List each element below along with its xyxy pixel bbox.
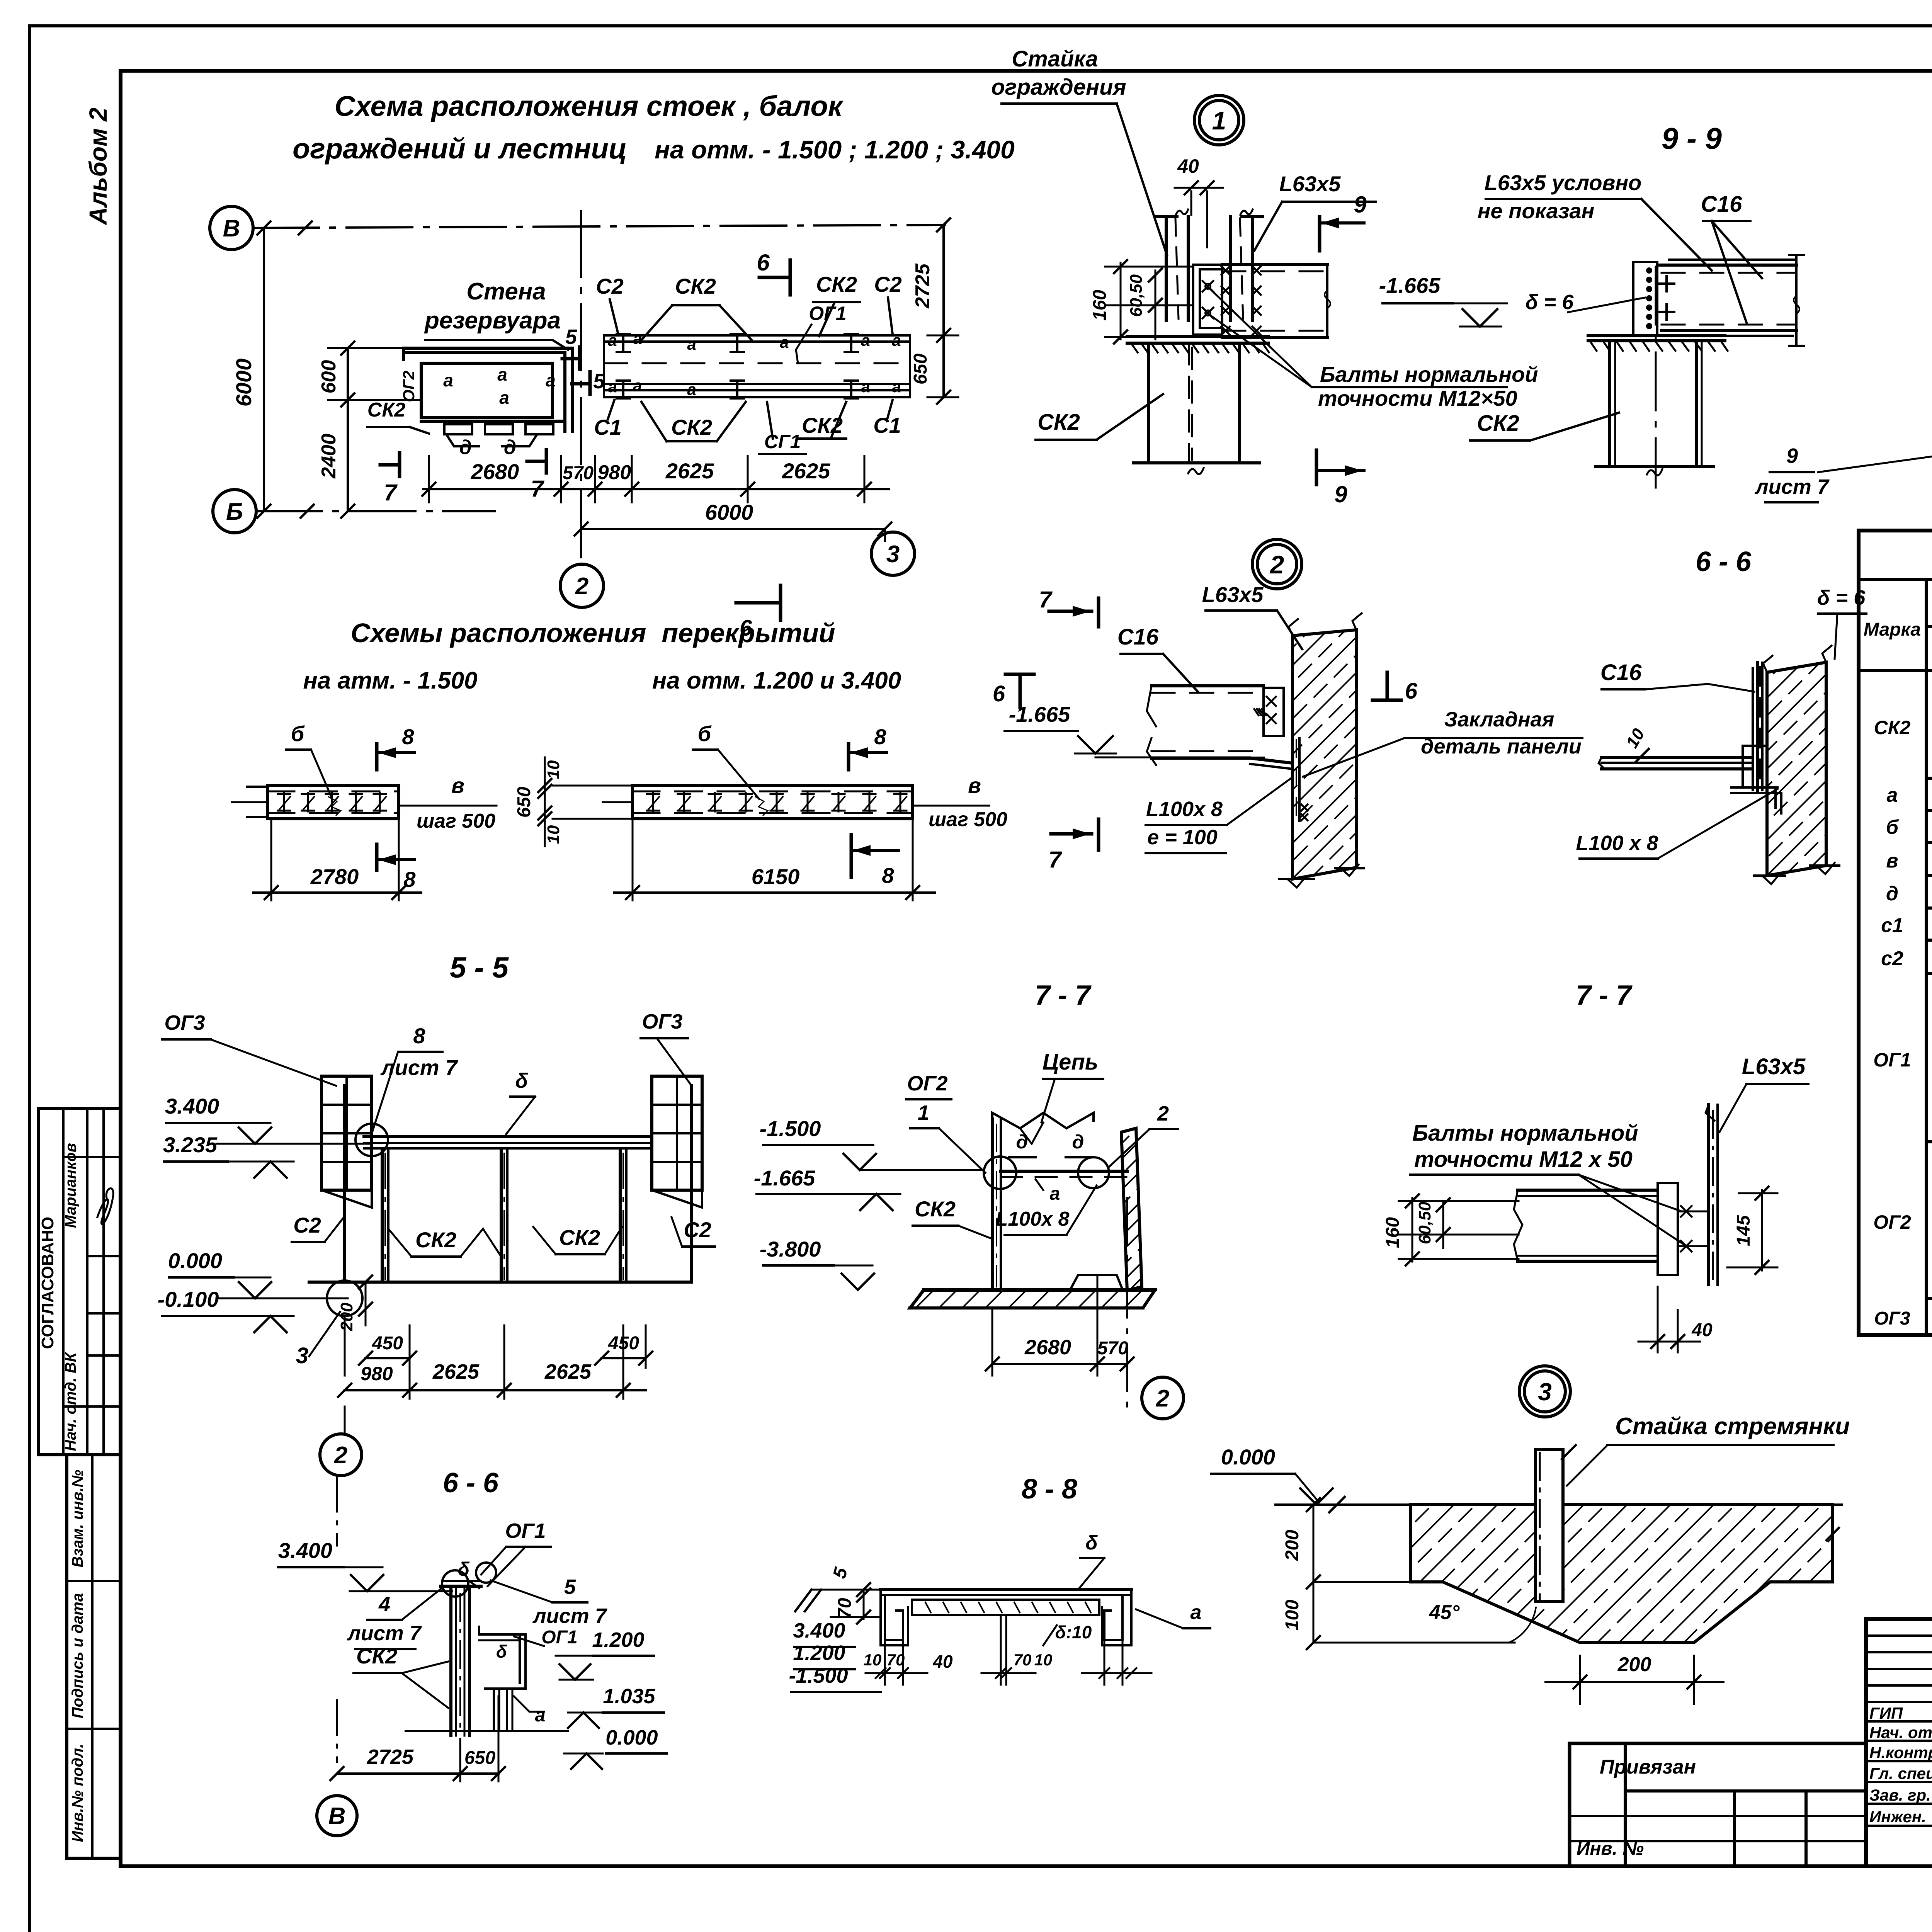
svg-text:145: 145 <box>1733 1215 1754 1246</box>
svg-text:ГИП: ГИП <box>1869 1704 1903 1722</box>
svg-text:С16: С16 <box>1701 192 1742 217</box>
svg-text:6000: 6000 <box>705 500 753 524</box>
svg-text:а: а <box>861 331 870 349</box>
svg-text:а: а <box>780 333 789 351</box>
svg-text:10: 10 <box>864 1651 882 1669</box>
svg-text:с2: с2 <box>1881 947 1903 970</box>
svg-text:СК2: СК2 <box>915 1197 956 1221</box>
svg-text:Альбом 2: Альбом 2 <box>84 107 112 225</box>
svg-text:δ: δ <box>1085 1532 1098 1554</box>
svg-text:на отм. - 1.500 ; 1.200 ; 3.: на отм. - 1.500 ; 1.200 ; 3.400 <box>655 135 1015 164</box>
svg-text:δ: δ <box>458 1558 470 1580</box>
svg-text:СК2: СК2 <box>671 415 712 439</box>
svg-text:6 - 6: 6 - 6 <box>443 1468 499 1498</box>
svg-text:100: 100 <box>1282 1600 1303 1631</box>
svg-text:а: а <box>443 370 453 390</box>
svg-text:на отм. 1.200 и 3.400: на отм. 1.200 и 3.400 <box>652 667 901 694</box>
svg-text:1: 1 <box>918 1101 929 1124</box>
svg-text:70: 70 <box>835 1598 855 1619</box>
svg-text:10: 10 <box>544 825 563 844</box>
svg-text:980: 980 <box>598 461 631 484</box>
svg-text:5 - 5: 5 - 5 <box>450 951 509 984</box>
svg-text:СК2: СК2 <box>1874 717 1911 738</box>
svg-text:-1.665: -1.665 <box>1009 702 1071 726</box>
svg-text:СК2: СК2 <box>1037 410 1080 435</box>
svg-text:резервуара: резервуара <box>424 307 561 334</box>
svg-text:СК2: СК2 <box>356 1644 397 1668</box>
svg-text:L63х5: L63х5 <box>1279 172 1341 196</box>
svg-text:980: 980 <box>361 1363 393 1384</box>
svg-text:0.000: 0.000 <box>605 1726 658 1749</box>
svg-text:δ = 6: δ = 6 <box>1526 291 1574 314</box>
svg-text:на атм. - 1.500: на атм. - 1.500 <box>303 667 477 694</box>
svg-text:Инжен.: Инжен. <box>1869 1808 1926 1826</box>
svg-text:Марка: Марка <box>1864 619 1921 640</box>
svg-text:570: 570 <box>563 463 594 483</box>
svg-text:Привязан: Привязан <box>1600 1756 1696 1778</box>
svg-text:650: 650 <box>910 354 931 384</box>
svg-text:60,50: 60,50 <box>1127 274 1146 317</box>
svg-text:д: д <box>1886 883 1898 905</box>
svg-text:Гл. спец.: Гл. спец. <box>1869 1764 1932 1782</box>
svg-text:2625: 2625 <box>432 1360 480 1383</box>
svg-text:ограждений и лестниц: ограждений и лестниц <box>293 133 627 165</box>
svg-text:-3.800: -3.800 <box>760 1237 821 1261</box>
svg-text:60,50: 60,50 <box>1415 1201 1434 1244</box>
svg-text:-0.100: -0.100 <box>158 1287 219 1311</box>
svg-text:шаг 500: шаг 500 <box>417 810 495 832</box>
svg-text:Цепь: Цепь <box>1043 1049 1098 1075</box>
svg-text:8: 8 <box>403 867 416 891</box>
svg-text:L100 х 8: L100 х 8 <box>1576 832 1658 855</box>
svg-text:а: а <box>1887 784 1898 806</box>
svg-text:δ: δ <box>496 1641 507 1662</box>
svg-text:2725: 2725 <box>367 1745 414 1769</box>
svg-text:40: 40 <box>932 1651 953 1672</box>
svg-text:ОГ3: ОГ3 <box>1874 1308 1910 1329</box>
svg-text:8: 8 <box>402 724 414 749</box>
svg-text:ОГ1: ОГ1 <box>505 1519 546 1543</box>
svg-text:б: б <box>698 721 712 746</box>
svg-text:Н.контр.: Н.контр. <box>1869 1743 1932 1762</box>
svg-text:а: а <box>499 388 509 408</box>
svg-text:2780: 2780 <box>310 864 359 889</box>
svg-text:6150: 6150 <box>752 864 800 889</box>
svg-text:а: а <box>546 370 556 390</box>
svg-text:6: 6 <box>993 681 1005 706</box>
svg-text:8 - 8: 8 - 8 <box>1022 1474 1077 1505</box>
svg-text:Инв.№ подл.: Инв.№ подл. <box>69 1744 86 1842</box>
svg-text:СК2: СК2 <box>415 1228 456 1252</box>
svg-text:Схема расположения стоек ,: Схема расположения стоек , балок <box>335 90 844 122</box>
svg-text:7: 7 <box>1048 847 1062 872</box>
svg-text:9 - 9: 9 - 9 <box>1662 121 1722 155</box>
svg-text:Нач. отд. ВК: Нач. отд. ВК <box>62 1352 79 1451</box>
svg-text:9: 9 <box>1354 192 1367 218</box>
svg-text:2: 2 <box>334 1442 347 1469</box>
svg-text:3.400: 3.400 <box>165 1094 219 1118</box>
svg-text:6: 6 <box>757 250 770 276</box>
svg-text:8: 8 <box>413 1024 425 1048</box>
svg-text:450: 450 <box>372 1333 403 1354</box>
svg-text:9: 9 <box>1786 444 1798 468</box>
svg-text:70: 70 <box>887 1651 905 1669</box>
svg-text:8: 8 <box>874 724 886 749</box>
svg-text:Инв. №: Инв. № <box>1577 1838 1644 1859</box>
svg-text:3: 3 <box>886 541 900 568</box>
svg-text:5: 5 <box>564 1575 576 1599</box>
svg-text:а: а <box>633 376 642 395</box>
svg-text:а: а <box>687 335 696 353</box>
svg-text:2: 2 <box>1269 550 1284 579</box>
svg-text:б: б <box>1886 816 1899 838</box>
svg-text:L100х 8: L100х 8 <box>996 1208 1070 1230</box>
svg-text:Подпись и дата: Подпись и дата <box>69 1593 86 1718</box>
svg-text:Зав. гр.: Зав. гр. <box>1869 1786 1931 1804</box>
svg-text:а: а <box>608 378 617 396</box>
svg-text:В: В <box>223 215 240 242</box>
svg-text:д: д <box>1072 1131 1084 1153</box>
svg-text:3.235: 3.235 <box>163 1133 218 1157</box>
svg-text:ОГ3: ОГ3 <box>164 1011 205 1034</box>
svg-text:а: а <box>535 1705 546 1726</box>
svg-text:570: 570 <box>1097 1338 1128 1359</box>
svg-text:L63х5 условно: L63х5 условно <box>1485 170 1642 195</box>
svg-text:точности М12 х 50: точности М12 х 50 <box>1414 1147 1633 1172</box>
svg-text:2: 2 <box>575 573 588 600</box>
svg-text:Взам. инв.№: Взам. инв.№ <box>69 1469 86 1567</box>
svg-text:а: а <box>892 378 901 396</box>
svg-text:в: в <box>451 773 464 798</box>
svg-text:ОГ2: ОГ2 <box>907 1072 947 1095</box>
svg-text:ОГ1: ОГ1 <box>1873 1049 1911 1071</box>
svg-text:Марианков: Марианков <box>62 1143 79 1228</box>
svg-text:СОГЛАСОВАНО: СОГЛАСОВАНО <box>38 1217 57 1349</box>
svg-text:С16: С16 <box>1117 624 1159 650</box>
svg-text:200: 200 <box>337 1303 356 1332</box>
svg-text:6: 6 <box>1405 679 1418 704</box>
svg-text:160: 160 <box>1383 1217 1403 1248</box>
svg-text:-1.500: -1.500 <box>789 1664 848 1687</box>
svg-text:10: 10 <box>1034 1651 1053 1669</box>
svg-text:3.400: 3.400 <box>793 1619 845 1642</box>
svg-text:3.400: 3.400 <box>278 1538 332 1563</box>
svg-text:СК2: СК2 <box>675 274 716 298</box>
svg-text:лист 7: лист 7 <box>532 1604 608 1628</box>
svg-text:650: 650 <box>464 1748 495 1768</box>
svg-text:а: а <box>861 378 870 396</box>
svg-text:7 - 7: 7 - 7 <box>1576 980 1633 1011</box>
svg-text:650: 650 <box>514 787 534 818</box>
svg-text:L63х5: L63х5 <box>1202 582 1264 607</box>
svg-text:0.000: 0.000 <box>168 1248 222 1273</box>
svg-text:ОГ1: ОГ1 <box>809 303 846 324</box>
svg-text:Стайка: Стайка <box>1012 46 1098 71</box>
svg-text:шаг 500: шаг 500 <box>929 808 1007 831</box>
svg-text:не показан: не показан <box>1478 199 1595 223</box>
svg-text:200: 200 <box>1282 1530 1303 1561</box>
svg-text:С2: С2 <box>596 274 624 298</box>
svg-text:Схемы расположения: Схемы расположения <box>350 618 646 648</box>
svg-text:С16: С16 <box>1600 660 1642 685</box>
svg-text:а: а <box>1050 1184 1060 1204</box>
svg-text:ограждения: ограждения <box>991 75 1126 100</box>
svg-text:6 - 6: 6 - 6 <box>1696 546 1752 577</box>
svg-text:В: В <box>328 1803 346 1830</box>
svg-text:Стена: Стена <box>466 278 546 305</box>
svg-text:лист 7: лист 7 <box>1754 475 1830 498</box>
svg-text:а: а <box>633 329 642 347</box>
svg-text:Нач. отд.: Нач. отд. <box>1869 1723 1932 1742</box>
svg-text:L100х 8: L100х 8 <box>1146 798 1223 821</box>
svg-text:С2: С2 <box>684 1218 711 1242</box>
svg-text:Балты нормальной: Балты нормальной <box>1320 362 1538 386</box>
svg-text:1.200: 1.200 <box>793 1641 845 1665</box>
svg-text:2680: 2680 <box>471 459 519 484</box>
svg-text:-1.665: -1.665 <box>754 1166 816 1190</box>
svg-text:8: 8 <box>882 863 894 888</box>
svg-text:ОГ3: ОГ3 <box>642 1010 682 1033</box>
svg-text:7 - 7: 7 - 7 <box>1035 980 1092 1011</box>
svg-text:2625: 2625 <box>782 459 830 483</box>
svg-text:3: 3 <box>296 1343 308 1368</box>
svg-text:в: в <box>968 773 981 798</box>
svg-text:1.200: 1.200 <box>592 1628 644 1651</box>
svg-text:Стайка стремянки: Стайка стремянки <box>1615 1413 1850 1440</box>
svg-text:45°: 45° <box>1429 1601 1460 1624</box>
svg-text:а: а <box>608 331 617 349</box>
svg-text:9: 9 <box>1334 481 1347 507</box>
svg-text:а: а <box>687 380 696 398</box>
svg-text:СК2: СК2 <box>816 272 857 296</box>
svg-text:Б: Б <box>226 498 243 525</box>
svg-text:СК2: СК2 <box>367 399 406 421</box>
svg-text:ОГ2: ОГ2 <box>1873 1211 1911 1233</box>
svg-text:2625: 2625 <box>665 459 714 483</box>
svg-text:1.035: 1.035 <box>603 1685 655 1708</box>
svg-text:2625: 2625 <box>544 1360 592 1383</box>
svg-text:40: 40 <box>1177 155 1199 177</box>
svg-text:600: 600 <box>318 360 340 394</box>
svg-text:а: а <box>497 364 507 384</box>
svg-text:лист 7: лист 7 <box>380 1055 459 1080</box>
svg-text:1: 1 <box>1212 106 1226 135</box>
svg-text:6000: 6000 <box>231 359 256 407</box>
svg-text:10: 10 <box>544 760 563 779</box>
svg-text:3: 3 <box>1538 1378 1552 1406</box>
svg-text:С2: С2 <box>293 1213 321 1237</box>
svg-text:40: 40 <box>1691 1320 1713 1340</box>
svg-text:СК2: СК2 <box>559 1225 600 1250</box>
svg-text:-1.665: -1.665 <box>1379 273 1441 298</box>
svg-text:2725: 2725 <box>912 263 934 309</box>
svg-text:б: б <box>291 721 305 746</box>
svg-text:д: д <box>1016 1131 1028 1153</box>
svg-text:70: 70 <box>1014 1651 1032 1669</box>
svg-text:ОГ1: ОГ1 <box>541 1627 578 1648</box>
svg-text:2400: 2400 <box>318 434 340 479</box>
svg-text:перекрытий: перекрытий <box>662 618 835 648</box>
svg-text:7: 7 <box>1039 587 1053 612</box>
svg-text:Закладная: Закладная <box>1444 708 1554 731</box>
svg-text:СГ1: СГ1 <box>764 431 801 452</box>
svg-text:2: 2 <box>1157 1102 1169 1125</box>
svg-text:с1: с1 <box>1881 914 1903 937</box>
svg-text:СК2: СК2 <box>1477 411 1519 436</box>
svg-text:С2: С2 <box>874 272 902 296</box>
svg-text:ОГ2: ОГ2 <box>400 371 418 402</box>
svg-text:е = 100: е = 100 <box>1147 826 1218 849</box>
svg-text:-1.500: -1.500 <box>760 1116 821 1141</box>
svg-text:δ:10: δ:10 <box>1055 1622 1092 1642</box>
svg-text:Балты нормальной: Балты нормальной <box>1412 1121 1638 1146</box>
svg-text:лист 7: лист 7 <box>347 1622 422 1645</box>
svg-text:L63х5: L63х5 <box>1742 1054 1806 1079</box>
svg-text:0.000: 0.000 <box>1221 1445 1275 1469</box>
svg-text:2: 2 <box>1156 1385 1169 1412</box>
svg-text:200: 200 <box>1617 1653 1651 1676</box>
svg-text:δ = 6: δ = 6 <box>1817 586 1866 609</box>
svg-text:в: в <box>1886 850 1898 872</box>
svg-text:а: а <box>1190 1601 1202 1624</box>
svg-text:2680: 2680 <box>1024 1336 1071 1359</box>
svg-text:5: 5 <box>565 325 577 349</box>
svg-text:7: 7 <box>384 480 398 505</box>
svg-text:точности М12×50: точности М12×50 <box>1318 386 1517 410</box>
svg-text:δ: δ <box>515 1069 529 1092</box>
svg-text:5: 5 <box>593 370 605 393</box>
svg-text:4: 4 <box>378 1593 390 1616</box>
